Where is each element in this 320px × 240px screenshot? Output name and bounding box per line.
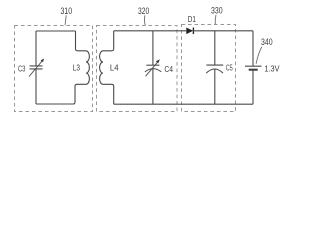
svg-text:340: 340 [261,37,273,47]
capacitor C5 (polarized) top plate [206,64,223,66]
capacitor C3 arrow [29,61,42,77]
wire: battery bottom lead [252,70,254,105]
svg-text:L4: L4 [110,62,119,72]
battery short plate [249,69,258,71]
svg-text:L3: L3 [73,62,80,72]
capacitor C4 arrow [146,62,158,76]
leader line 320 [143,15,146,25]
capacitor C5 curved plate [206,69,223,73]
svg-text:1.3V: 1.3V [264,63,279,73]
wire: battery top lead [252,31,254,66]
svg-text:320: 320 [138,6,149,16]
wire: C5 branch upper [214,31,216,65]
svg-text:310: 310 [61,6,73,16]
box 310 [15,26,93,112]
leader line 310 [65,15,66,25]
wire: top rail from diode cathode to battery corner [193,30,253,32]
capacitor C4 (variable, curved bottom plate) [146,64,159,66]
svg-text:C5: C5 [226,62,233,72]
capacitor C3 (variable) plates [30,66,43,69]
leader line 340 [256,47,262,64]
wire: bottom of tank loop in box 310 [36,103,75,105]
wire: C4 branch lower [152,69,154,105]
wire: C4 branch upper [152,31,154,65]
box 320 [97,26,178,112]
svg-text:C4: C4 [164,64,173,74]
wire: C3 branch vertical [35,31,37,104]
svg-text:C3: C3 [18,63,26,73]
wire: C5 branch lower [214,69,216,105]
diode D1 cathode bar [192,28,194,35]
wire: top of tank loop in box 310 [36,30,76,32]
inductor L3 [73,31,89,104]
battery long plate [245,65,262,67]
wire: top rail from L4 to diode anode [114,30,187,32]
leader line 330 [214,15,217,24]
box 330 [182,25,236,112]
diode D1 (anode triangle) [186,28,193,35]
svg-text:D1: D1 [188,14,196,24]
wire: bottom rail from L4 to battery [114,103,253,105]
inductor L4 [100,31,114,104]
svg-text:330: 330 [211,6,223,16]
